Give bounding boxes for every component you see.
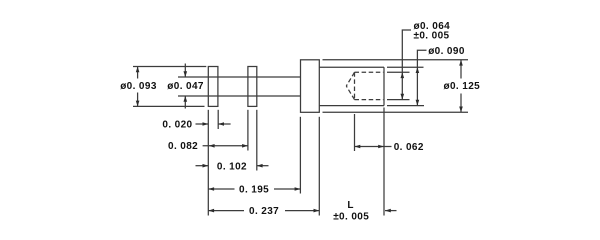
dim Ø0.090 leader + vertical line	[417, 50, 426, 105]
cone upper line (dashed)	[346, 72, 354, 86]
svg-text:L: L	[347, 200, 354, 211]
dim 0.082 line	[203, 145, 248, 147]
dim 0.195 line left segment	[208, 188, 234, 190]
svg-text:ø0. 047: ø0. 047	[167, 81, 204, 92]
hidden hole bottom (dashed)	[355, 99, 384, 101]
barrel tube right end	[383, 67, 385, 105]
dim Ø0.093 up arrowhead	[136, 67, 140, 73]
dim Ø0.093 bottom extension line	[133, 105, 205, 107]
shaft bottom line / ext line	[178, 95, 301, 97]
barrel top extension line	[387, 66, 424, 68]
dim Ø0.093 vertical line upper segment	[137, 67, 139, 79]
svg-text:0. 237: 0. 237	[249, 206, 279, 217]
svg-text:0. 020: 0. 020	[162, 120, 192, 131]
dim L right arrow (outside, pointing left)	[385, 210, 397, 212]
dim 0.237 left arrowhead	[208, 209, 214, 213]
dim Ø0.125 bottom extension line	[323, 111, 469, 113]
dim Ø0.064 down arrowhead	[401, 94, 405, 100]
dim 0.195 left arrowhead	[208, 187, 214, 191]
dim 0.020 right arrow (outside, pointing left)	[218, 123, 230, 125]
shaft between flanges (Ø0.047) top line / ext line	[178, 76, 301, 78]
dim Ø0.125 vertical lower segment	[460, 94, 462, 113]
dim Ø0.125 down arrowhead	[459, 107, 463, 113]
dim Ø0.064 leader + vertical line	[402, 30, 411, 100]
dim 0.062 right arrowhead	[378, 145, 384, 149]
dim 0.195 line right segment	[274, 188, 300, 190]
svg-text:0. 102: 0. 102	[217, 162, 247, 173]
dim 0.237 line right segment	[285, 210, 319, 212]
dim 0.102 right arrow (outside, pointing left)	[257, 165, 269, 167]
hidden hole top (dashed, Ø0.064)	[355, 71, 384, 73]
svg-text:±0. 005: ±0. 005	[414, 31, 450, 42]
svg-text:0. 062: 0. 062	[394, 142, 424, 153]
extension line below flange1 right edge	[217, 110, 219, 129]
svg-text:ø0. 090: ø0. 090	[428, 46, 465, 57]
hole shoulder (dashed vertical)	[354, 72, 356, 99]
flange F2 (second collar)	[248, 67, 257, 107]
svg-text:ø0. 093: ø0. 093	[120, 81, 157, 92]
dim Ø0.125 up arrowhead	[459, 60, 463, 66]
dim 0.082 right arrowhead	[242, 144, 248, 148]
hole bottom extension line	[387, 99, 410, 101]
dim 0.062 left arrowhead	[355, 145, 361, 149]
dim Ø0.047 bottom arrow (outside, pointing up)	[184, 96, 186, 109]
dim 0.020 left arrow (outside, pointing right)	[196, 123, 209, 125]
dim Ø0.090 down arrowhead	[416, 100, 420, 106]
dim Ø0.090 up arrowhead	[416, 67, 420, 73]
dim Ø0.125 vertical upper segment	[460, 60, 462, 79]
extension line below flange2 left edge	[247, 110, 249, 151]
dim 0.237 line left segment	[208, 210, 244, 212]
dim 0.195 right arrowhead	[295, 187, 301, 191]
barrel tube top (Ø0.090)	[319, 66, 384, 68]
dim 0.237 right arrowhead	[314, 209, 320, 213]
dim Ø0.093 vertical line lower segment	[137, 93, 139, 107]
cone lower line (dashed)	[346, 86, 354, 100]
svg-text:0. 082: 0. 082	[168, 141, 198, 152]
dim 0.062 line	[355, 146, 392, 148]
extension line below flange1 left edge (datum)	[207, 110, 209, 216]
dim Ø0.093 down arrowhead	[136, 101, 140, 107]
big flange (Ø0.125 shoulder)	[301, 60, 320, 113]
dim 0.082 left arrowhead	[209, 144, 215, 148]
svg-text:ø0. 125: ø0. 125	[444, 81, 481, 92]
dim 0.102 left arrow (outside, pointing right)	[196, 165, 209, 167]
extension line below flange2 right edge	[256, 110, 258, 171]
dim Ø0.093 top extension line	[133, 66, 206, 68]
svg-text:±0. 005: ±0. 005	[333, 212, 369, 223]
extension line below big flange left edge	[299, 117, 301, 194]
svg-text:0. 195: 0. 195	[239, 185, 269, 196]
barrel bottom extension line	[387, 105, 424, 107]
dim Ø0.064 up arrowhead	[401, 72, 405, 78]
flange F1 (first collar, Ø0.093)	[208, 67, 218, 107]
dim Ø0.125 top extension line	[323, 59, 469, 61]
extension line below big flange right edge	[318, 117, 320, 216]
extension line below hole shoulder	[354, 114, 356, 151]
hole top extension line	[387, 71, 410, 73]
barrel tube bottom	[319, 105, 384, 107]
dim Ø0.047 top arrow (outside, pointing down)	[184, 64, 186, 78]
extension line below tube right end	[383, 108, 385, 216]
